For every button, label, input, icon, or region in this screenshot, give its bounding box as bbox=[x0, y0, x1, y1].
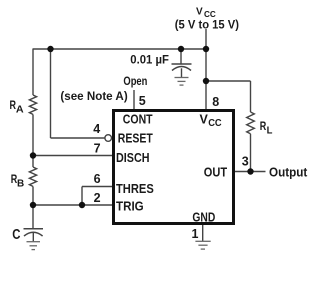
svg-text:L: L bbox=[267, 126, 273, 137]
svg-text:8: 8 bbox=[212, 95, 219, 109]
junction at RESET branch on top rail bbox=[47, 46, 53, 52]
wire DISCH pin 7 horizontal bbox=[33, 155, 112, 157]
svg-text:(see Note A): (see Note A) bbox=[60, 89, 127, 103]
svg-text:5: 5 bbox=[139, 94, 146, 108]
svg-text:V: V bbox=[200, 113, 209, 127]
wire THRES pin 6 horizontal bbox=[82, 186, 112, 188]
wire left rail between RA and RB bbox=[32, 117, 34, 168]
junction at DISCH on left rail bbox=[30, 152, 36, 158]
svg-text:Output: Output bbox=[269, 166, 308, 180]
ground below 0.01 uF capacitor bbox=[175, 78, 189, 86]
svg-text:6: 6 bbox=[94, 172, 101, 186]
svg-text:CONT: CONT bbox=[123, 113, 153, 127]
junction at output node bbox=[247, 168, 253, 174]
svg-text:(5 V to 15 V): (5 V to 15 V) bbox=[175, 19, 239, 31]
wire RL branch horizontal from VCC line bbox=[206, 80, 251, 82]
wire top horizontal rail bbox=[33, 48, 207, 50]
wire RESET branch horizontal to pin 4 bbox=[51, 137, 105, 139]
node VCC label bbox=[175, 6, 239, 31]
label Open (see Note A) bbox=[60, 74, 147, 103]
wire RESET branch vertical bbox=[50, 49, 52, 138]
svg-text:DISCH: DISCH bbox=[116, 151, 150, 165]
wire left rail upper segment bbox=[32, 49, 34, 95]
svg-text:0.01 µF: 0.01 µF bbox=[130, 55, 169, 67]
pin 4 inverter circle on RESET bbox=[105, 135, 112, 142]
svg-text:2: 2 bbox=[94, 191, 101, 205]
svg-text:7: 7 bbox=[94, 142, 101, 156]
wire RL branch vertical upper bbox=[250, 81, 252, 112]
junction at RL branch on VCC line bbox=[203, 78, 209, 84]
svg-text:CC: CC bbox=[204, 9, 216, 19]
wire CONT pin 5 vertical bbox=[133, 90, 135, 110]
svg-text:1: 1 bbox=[192, 227, 199, 241]
svg-text:GND: GND bbox=[192, 210, 215, 224]
resistor RA bbox=[10, 95, 37, 117]
svg-text:THRES: THRES bbox=[116, 182, 154, 196]
svg-text:RESET: RESET bbox=[118, 131, 153, 145]
junction at 0.01 uF tap on top rail bbox=[178, 46, 184, 52]
svg-text:R: R bbox=[260, 119, 267, 133]
ground below capacitor C bbox=[27, 242, 41, 250]
IC U1 555 timer body bbox=[114, 111, 234, 224]
resistor RB bbox=[11, 167, 37, 191]
wire left rail down to capacitor C bbox=[32, 191, 34, 229]
capacitor 0.01 uF bbox=[130, 49, 191, 77]
wire TRIG pin 2 horizontal bbox=[33, 204, 112, 206]
svg-text:3: 3 bbox=[242, 155, 249, 169]
capacitor C bbox=[12, 227, 43, 243]
svg-text:V: V bbox=[196, 6, 203, 17]
junction THRES stub on TRIG wire bbox=[79, 202, 85, 208]
pin label VCC inside box bbox=[200, 113, 222, 130]
wire OUT pin 3 horizontal bbox=[235, 171, 266, 173]
svg-text:Open: Open bbox=[123, 74, 147, 88]
wire THRES to TRIG vertical stub bbox=[81, 187, 83, 206]
ground below pin 1 bbox=[195, 241, 210, 249]
wire VCC vertical line to pin 8 bbox=[205, 29, 207, 110]
svg-text:TRIG: TRIG bbox=[116, 199, 144, 213]
junction at TRIG on left rail bbox=[30, 202, 36, 208]
svg-text:A: A bbox=[16, 103, 24, 115]
svg-text:OUT: OUT bbox=[204, 166, 228, 180]
svg-text:B: B bbox=[17, 177, 25, 189]
wire GND pin 1 vertical bbox=[202, 225, 204, 241]
svg-text:C: C bbox=[12, 227, 21, 243]
resistor RL bbox=[247, 112, 273, 138]
svg-text:CC: CC bbox=[208, 118, 222, 129]
junction at VCC line and top rail bbox=[203, 46, 209, 52]
svg-text:4: 4 bbox=[93, 122, 100, 136]
wire RL branch vertical lower to output node bbox=[250, 138, 252, 172]
